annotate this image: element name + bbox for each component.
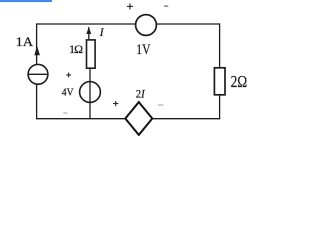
svg-text:1Ω: 1Ω [69,42,83,56]
svg-text:2Ω: 2Ω [231,72,248,91]
svg-text:I: I [99,25,105,39]
svg-text:2I: 2I [136,88,146,100]
svg-text:4V: 4V [62,88,74,99]
svg-text:1A: 1A [16,34,34,49]
svg-text:1V: 1V [136,42,151,58]
